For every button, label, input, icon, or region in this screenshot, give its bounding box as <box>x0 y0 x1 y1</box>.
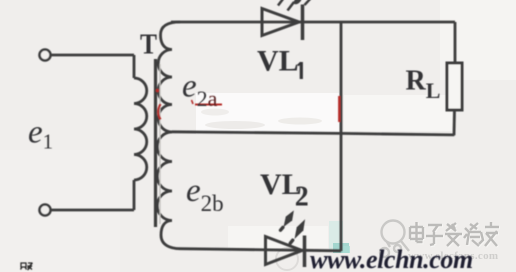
svg-text:T: T <box>140 29 157 61</box>
svg-text:VL: VL <box>257 45 299 78</box>
svg-text:www.elchn.com: www.elchn.com <box>310 245 473 272</box>
